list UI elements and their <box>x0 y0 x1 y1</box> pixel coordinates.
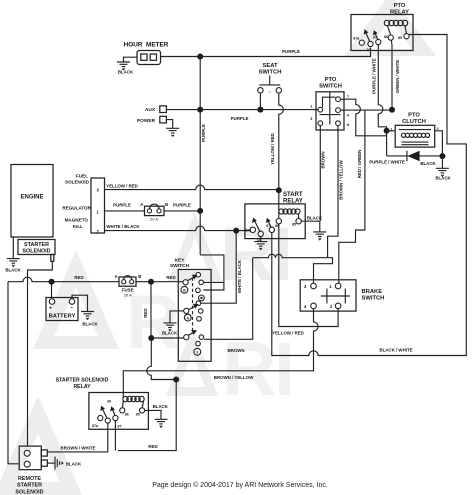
wire start relay 85 to ground via brown <box>301 221 320 232</box>
svg-text:BROWN: BROWN <box>321 151 326 168</box>
engine <box>11 165 92 238</box>
svg-text:REGULATOR: REGULATOR <box>62 206 91 211</box>
PTO relay arm <box>364 29 370 41</box>
terminal B <box>181 286 188 293</box>
key switch SW1 <box>170 258 211 362</box>
svg-text:BLACK / WHITE: BLACK / WHITE <box>379 348 412 353</box>
svg-text:RED: RED <box>166 275 175 280</box>
node red-battery <box>49 279 55 285</box>
wire GREEN/WHITE PTO relay 86 down <box>390 40 393 110</box>
svg-text:85: 85 <box>136 413 140 417</box>
svg-text:HOUR METER: HOUR METER <box>124 42 169 49</box>
seat switch SW2 <box>258 63 282 95</box>
node aux-purple <box>197 107 203 113</box>
node clutch-right <box>439 153 445 159</box>
svg-text:PTO: PTO <box>325 77 337 83</box>
node red-lower corner <box>173 377 179 383</box>
svg-text:B: B <box>138 274 141 279</box>
svg-text:87a: 87a <box>353 36 360 40</box>
ground (key switch) <box>164 323 177 331</box>
svg-text:3: 3 <box>310 117 312 121</box>
node purple-top <box>197 54 203 60</box>
wire clutch node to ground <box>441 156 443 168</box>
coil <box>123 396 144 401</box>
key switch arm 1 <box>188 275 198 281</box>
svg-text:85: 85 <box>398 36 402 40</box>
svg-text:BLACK: BLACK <box>435 176 451 181</box>
wire YELLOW/RED seat right down to start relay <box>279 93 284 190</box>
svg-text:POWER: POWER <box>137 118 156 124</box>
svg-text:8: 8 <box>347 123 349 127</box>
starter solenoid (engine) <box>18 240 55 255</box>
svg-text:Page design © 2004-2017 by ARI: Page design © 2004-2017 by ARI Network S… <box>152 481 328 489</box>
svg-text:STARTER SOLENOID: STARTER SOLENOID <box>56 378 109 384</box>
svg-text:FUEL: FUEL <box>76 174 88 179</box>
wire PURPLE/WHITE PTO relay 87 to clutch node <box>378 45 386 156</box>
svg-text:BLACK: BLACK <box>66 461 82 466</box>
svg-text:87: 87 <box>118 424 122 428</box>
starter solenoid relay arm <box>100 406 107 419</box>
svg-text:YELLOW / RED: YELLOW / RED <box>270 133 275 165</box>
svg-text:B: B <box>183 289 186 293</box>
start relay arm <box>252 218 260 232</box>
svg-text:B: B <box>165 202 168 207</box>
svg-text:SWITCH: SWITCH <box>319 84 342 90</box>
ground (start relay 30) <box>254 242 267 250</box>
svg-text:87a: 87a <box>245 228 252 232</box>
svg-text:SWITCH: SWITCH <box>362 296 385 302</box>
coil <box>279 209 300 214</box>
svg-text:PURPLE: PURPLE <box>113 202 131 207</box>
node white/black <box>233 228 239 234</box>
wire WHITE/BLACK down to key switch M <box>201 231 236 304</box>
wire WHITE/BLACK engine pin2 to start relay 87a <box>105 226 251 231</box>
wire RED down from fuse node to key B2 and starter relay <box>150 282 152 338</box>
ground (power) <box>166 128 179 136</box>
svg-text:ENGINE: ENGINE <box>20 195 43 201</box>
svg-text:1: 1 <box>310 105 312 109</box>
svg-text:30: 30 <box>257 239 261 243</box>
wire starter solenoid to remote solenoid <box>28 261 53 446</box>
svg-text:+: + <box>49 306 52 312</box>
wire clutch right to node <box>435 131 443 156</box>
fuse F1 20A <box>140 202 168 222</box>
svg-text:I: I <box>274 327 295 412</box>
ground (battery) <box>81 312 94 320</box>
svg-text:SEAT: SEAT <box>262 63 277 69</box>
wire aux to purple node <box>166 109 200 111</box>
brake switch SW4 <box>300 280 384 311</box>
svg-text:BATTERY: BATTERY <box>49 314 76 320</box>
PTO switch terminals <box>318 107 323 112</box>
terminal S <box>194 348 201 355</box>
brake switch terminals <box>311 283 317 289</box>
node red-key <box>148 335 154 341</box>
wire power to ground <box>166 120 172 129</box>
wire BROWN/YELLOW PTO switch pin8 down <box>328 126 338 258</box>
wire purple run to PTO switch pin 1 <box>200 109 318 111</box>
svg-text:STARTER: STARTER <box>24 242 49 248</box>
svg-text:30: 30 <box>107 399 111 403</box>
svg-text:20 A: 20 A <box>124 293 132 298</box>
svg-text:SOLENOID: SOLENOID <box>22 248 50 254</box>
node yellow/red <box>276 187 282 193</box>
svg-text:BROWN / YELLOW: BROWN / YELLOW <box>214 375 254 380</box>
svg-text:SWITCH: SWITCH <box>259 69 282 75</box>
node clutch-left <box>384 128 390 134</box>
wire BLACK/WHITE start relay 87 to PTO relay 85 <box>272 35 467 356</box>
svg-text:CLUTCH: CLUTCH <box>402 119 426 125</box>
svg-text:STARTER: STARTER <box>17 483 42 489</box>
svg-text:WHITE / BLACK: WHITE / BLACK <box>106 224 140 229</box>
coil <box>384 20 407 25</box>
wire key A terminal to ground <box>170 311 184 323</box>
wire hour meter to ground <box>124 57 138 62</box>
ground (hour meter) <box>117 62 130 70</box>
svg-text:BLACK: BLACK <box>153 404 169 409</box>
svg-text:GREEN / WHITE: GREEN / WHITE <box>395 60 400 93</box>
wire YELLOW/RED engine pin3 to start relay node <box>105 185 279 190</box>
svg-text:PTO: PTO <box>394 3 406 9</box>
ground (start relay 85) <box>313 232 326 240</box>
svg-text:BLACK: BLACK <box>162 331 178 336</box>
svg-text:86: 86 <box>125 413 129 417</box>
wire relay 87 down to RED <box>114 421 116 451</box>
svg-text:PURPLE / WHITE: PURPLE / WHITE <box>372 58 377 94</box>
svg-text:RED / GREEN: RED / GREEN <box>357 150 362 179</box>
svg-text:START: START <box>283 192 303 198</box>
svg-text:RED: RED <box>74 275 83 280</box>
ground (starter solenoid relay) <box>155 419 168 427</box>
svg-text:AUX: AUX <box>145 107 156 113</box>
key switch terminals left <box>183 280 188 285</box>
wire PURPLE engine pin1 to fuse <box>105 210 145 212</box>
svg-text:85: 85 <box>292 222 296 226</box>
starter solenoid relay K3 <box>56 378 149 430</box>
wire PURPLE vertical <box>199 57 201 255</box>
svg-text:RELAY: RELAY <box>73 384 91 390</box>
svg-text:BROWN / YELLOW: BROWN / YELLOW <box>339 159 344 199</box>
wire PTO switch pin4 to green/white node and RED/GREEN to brake 1 <box>339 110 392 283</box>
svg-text:PURPLE / WHITE: PURPLE / WHITE <box>369 159 405 164</box>
wire purple down to key switch <box>200 255 224 290</box>
key switch arm 3 <box>188 330 197 335</box>
wire PURPLE top run to PTO relay 30 <box>200 48 370 57</box>
svg-text:FUSE: FUSE <box>122 287 134 292</box>
wire red feed into remote solenoid left <box>8 282 19 464</box>
svg-text:BLACK: BLACK <box>420 161 436 166</box>
wire BROWN key switch to PTO switch pin 8 <box>204 254 333 339</box>
svg-text:PURPLE: PURPLE <box>173 202 191 207</box>
hour meter HM1 <box>124 42 169 65</box>
PTO relay terminals <box>359 40 364 45</box>
svg-text:87a: 87a <box>92 424 99 428</box>
wire PTO switch pin7 to PTO clutch <box>340 99 386 136</box>
wire relay 85 to ground <box>145 410 161 419</box>
node purple-fuse <box>197 208 203 214</box>
svg-text:KILL: KILL <box>73 224 83 229</box>
wire brake 4 BROWN/YELLOW down and to starter solenoid relay <box>123 309 318 393</box>
svg-text:SOLENOID: SOLENOID <box>65 180 90 185</box>
key switch terminals right <box>196 272 201 277</box>
wire fuse B to red node <box>136 281 151 283</box>
wire RED battery run <box>8 277 119 282</box>
wire starter solenoid to ground <box>12 237 14 258</box>
start relay terminals <box>250 227 255 232</box>
svg-text:A: A <box>115 274 118 279</box>
svg-text:BLACK: BLACK <box>5 268 21 273</box>
fuse F2 20A <box>115 274 142 298</box>
ground (PTO clutch) <box>436 168 449 176</box>
diode D1 <box>387 155 443 157</box>
svg-text:BRAKE: BRAKE <box>362 289 383 295</box>
node seat-purple <box>257 107 263 113</box>
wire fuse to purple node <box>164 210 200 212</box>
wire seat left to purple <box>259 93 261 110</box>
PTO switch SW3 <box>316 77 344 130</box>
terminal A <box>184 314 191 321</box>
wire remote solenoid lower tab to ground <box>47 462 55 464</box>
svg-text:SOLENOID: SOLENOID <box>15 489 43 495</box>
svg-text:7: 7 <box>347 95 349 99</box>
svg-text:PURPLE: PURPLE <box>282 49 300 54</box>
svg-text:PURPLE: PURPLE <box>201 124 206 142</box>
svg-text:PTO: PTO <box>408 112 420 118</box>
start relay K1 <box>245 192 305 239</box>
svg-text:BLACK: BLACK <box>82 322 98 327</box>
svg-text:RED: RED <box>148 444 157 449</box>
ground (starter solenoid) <box>7 259 20 267</box>
svg-text:WHITE / BLACK: WHITE / BLACK <box>237 259 242 293</box>
svg-text:30: 30 <box>367 48 371 52</box>
svg-text:MAGNETO: MAGNETO <box>65 218 89 223</box>
starter solenoid relay terminals <box>98 415 103 420</box>
svg-text:SWITCH: SWITCH <box>170 263 190 269</box>
wire red node to key switch B1 <box>151 281 183 283</box>
svg-text:A: A <box>140 202 143 207</box>
svg-text:YELLOW / RED: YELLOW / RED <box>272 330 304 335</box>
PTO relay K2 <box>351 3 413 51</box>
wire battery minus to ground <box>72 295 88 311</box>
svg-text:KEY: KEY <box>174 258 185 264</box>
node green/white <box>389 107 395 113</box>
svg-text:BLACK: BLACK <box>118 70 134 75</box>
svg-text:RED: RED <box>143 308 148 317</box>
svg-text:86: 86 <box>384 35 388 39</box>
svg-text:-: - <box>71 305 73 312</box>
node red-fuse <box>148 279 154 285</box>
svg-text:REMOTE: REMOTE <box>18 476 41 482</box>
svg-text:BROWN / WHITE: BROWN / WHITE <box>61 445 96 450</box>
remote starter solenoid <box>15 446 47 495</box>
PTO clutch L1 <box>390 112 438 147</box>
svg-text:YELLOW / RED: YELLOW / RED <box>106 183 138 188</box>
svg-text:PURPLE: PURPLE <box>231 116 249 121</box>
svg-text:20 A: 20 A <box>150 217 158 222</box>
key switch arm 2 <box>189 304 199 310</box>
svg-text:BROWN: BROWN <box>227 348 244 353</box>
starter solenoid connector stub <box>51 255 54 262</box>
wire yellow/red start relay 86 to brake 2 <box>279 224 338 327</box>
ground (remote solenoid, rotated) <box>55 457 63 470</box>
battery <box>46 282 78 321</box>
engine connector block <box>91 178 105 233</box>
wire BROWN PTO switch pin3 down to ground junction <box>319 126 321 222</box>
wire hour meter to purple node <box>161 56 201 58</box>
wire start relay 30 to ground <box>260 237 262 242</box>
wire BROWN/WHITE relay 87a to remote solenoid <box>48 423 108 452</box>
svg-text:A: A <box>186 316 189 320</box>
